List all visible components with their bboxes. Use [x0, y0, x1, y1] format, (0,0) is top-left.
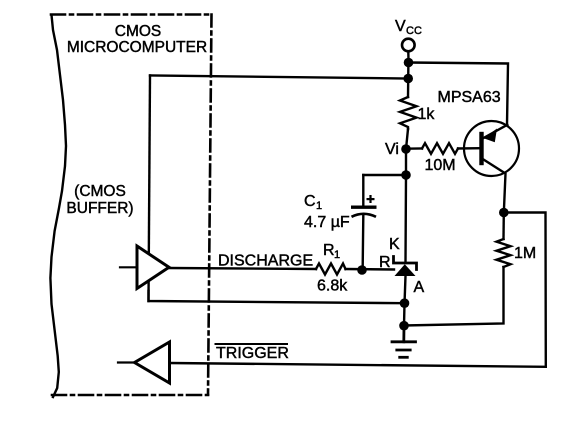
wire Vi node down to cap node: [405, 149, 407, 175]
op-amp buffer U2 (TRIGGER input, left pointing): [118, 342, 170, 383]
svg-text:10M: 10M: [425, 157, 456, 174]
resistor 1k zigzag: [400, 97, 417, 129]
svg-text:TRIGGER: TRIGGER: [216, 345, 289, 362]
wire cap node down to thyristor cathode: [404, 175, 407, 262]
wire Vi to 10M: [406, 147, 422, 150]
junction dot ground node upper: [400, 298, 410, 308]
wire 1k to Vi node: [406, 129, 408, 149]
wire from buffer bottom to ground rail: [149, 291, 405, 303]
junction dot capacitor/discharge node: [357, 265, 367, 275]
svg-text:A: A: [414, 279, 425, 296]
svg-text:DISCHARGE: DISCHARGE: [218, 253, 313, 270]
junction dot collector node: [499, 208, 509, 218]
label + polarity: [367, 195, 375, 203]
wire DISCHARGE output to R1: [169, 268, 316, 269]
svg-text:BUFFER): BUFFER): [66, 200, 133, 217]
svg-text:4.7 µF: 4.7 µF: [304, 214, 350, 231]
wire Vi feedback: corner from box to main rail: [150, 76, 408, 79]
wire between ground node dots: [403, 303, 406, 326]
svg-text:1k: 1k: [418, 106, 436, 123]
svg-text:R: R: [323, 242, 335, 259]
label CMOS MICROCOMPUTER: [67, 23, 207, 56]
wavy torn left edge of block: [50, 15, 66, 397]
svg-text:K: K: [389, 236, 400, 253]
ground symbol: [392, 326, 416, 358]
svg-text:CMOS: CMOS: [115, 23, 162, 40]
wire top rail to transistor emitter: [409, 63, 509, 125]
wire lower ground node to 1M bottom: [404, 267, 504, 326]
label TRIGGER with overline: [216, 345, 289, 362]
label C1: [304, 193, 322, 212]
op-amp buffer U1 (CMOS buffer, DISCHARGE output): [120, 246, 169, 289]
svg-text:(CMOS: (CMOS: [74, 183, 126, 200]
wire collector node to trigger line (right side): [504, 213, 546, 367]
transistor Q1 MPSA63: [464, 121, 519, 209]
junction dot top rail 2: [403, 74, 413, 84]
label Vcc: [395, 18, 422, 37]
junction dot cap node on main rail: [401, 170, 411, 180]
resistor R1 zigzag: [316, 264, 346, 275]
svg-text:C: C: [304, 193, 316, 210]
CMOS microcomputer block outline (dash-dot box): [51, 15, 212, 396]
junction dot ground node lower: [399, 321, 409, 331]
resistor 10M zigzag: [422, 143, 458, 154]
junction dot top rail 1: [404, 58, 414, 68]
overline of TRIGGER: [216, 343, 288, 345]
svg-text:6.8k: 6.8k: [317, 278, 348, 295]
svg-text:V: V: [395, 18, 406, 35]
wire R1 to thyristor gate: [346, 268, 395, 271]
node Vi junction dot: [401, 144, 411, 154]
thyristor D1 (SCR, K/R/A): [394, 257, 417, 299]
wire 10M to base: [458, 147, 480, 150]
wire vertical feedback into buffer: [149, 76, 151, 302]
capacitor C1 (polarized): [351, 175, 406, 266]
svg-text:MICROCOMPUTER: MICROCOMPUTER: [67, 39, 207, 56]
wire main rail Vcc to 1k: [407, 63, 410, 98]
svg-text:1M: 1M: [514, 245, 536, 262]
svg-text:MPSA63: MPSA63: [438, 89, 501, 106]
svg-text:1: 1: [334, 249, 340, 261]
resistor 1M zigzag: [497, 239, 511, 267]
svg-text:R: R: [379, 254, 391, 271]
label R1: [323, 242, 340, 261]
terminal Vcc: [402, 39, 415, 60]
label (CMOS BUFFER): [66, 183, 133, 217]
wire TRIGGER line: [170, 363, 546, 367]
svg-text:CC: CC: [406, 25, 422, 37]
svg-text:Vi: Vi: [385, 141, 399, 158]
wire 1M top to collector node: [502, 213, 505, 240]
svg-text:1: 1: [316, 200, 322, 212]
